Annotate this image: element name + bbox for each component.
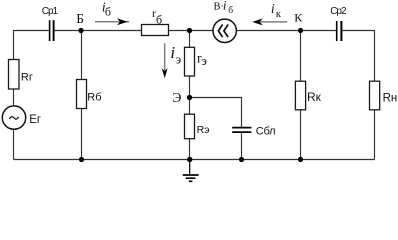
wire Cp1 to r_b through node B — [54, 30, 141, 32]
svg-text:э: э — [176, 53, 181, 67]
resistor r_b — [142, 25, 169, 36]
svg-text:б: б — [105, 5, 111, 19]
wire Rg to Eg — [13, 89, 15, 106]
wire Rb to bottom bus — [81, 109, 83, 160]
current arrow i_k — [252, 18, 287, 25]
svg-text:Rн: Rн — [383, 93, 398, 105]
svg-text:i: i — [223, 0, 227, 12]
current arrow i_b — [95, 18, 129, 25]
svg-text:э: э — [201, 53, 207, 68]
svg-text:Ег: Ег — [29, 114, 41, 126]
svg-text:к: к — [276, 9, 282, 20]
junction dot Rb bottom — [79, 157, 84, 162]
svg-text:Ср1: Ср1 — [42, 6, 59, 17]
wire node E to Cbl branch — [190, 98, 242, 128]
resistor Rb — [77, 80, 87, 109]
controlled current source U1 B*i_b — [213, 19, 236, 42]
resistor Rk — [295, 81, 305, 110]
ground — [183, 160, 199, 182]
svg-text:Rэ: Rэ — [197, 124, 210, 136]
wire r_b to source U1 — [169, 30, 213, 32]
resistor r_e — [185, 47, 195, 76]
wire Re to bottom bus — [189, 139, 191, 160]
node B junction dot — [78, 28, 83, 33]
svg-text:Rг: Rг — [21, 71, 33, 83]
wire source U1 to Cp2 through node K — [236, 30, 336, 32]
svg-text:Сбл: Сбл — [256, 126, 276, 138]
wire Eg to bottom bus — [13, 129, 15, 159]
svg-text:б: б — [156, 13, 162, 27]
svg-text:Rк: Rк — [307, 90, 322, 104]
wire right column upper — [374, 30, 376, 81]
svg-text:Б: Б — [76, 11, 84, 26]
junction dot Rk bottom — [298, 157, 303, 162]
wire node to r_e — [189, 31, 191, 48]
wire top-left horizontal — [14, 30, 49, 32]
wire bottom bus — [14, 159, 375, 161]
wire Cp2 to top-right corner — [342, 30, 374, 32]
resistor Re — [185, 114, 195, 139]
svg-text:К: К — [294, 11, 303, 25]
node junction dot r_b/r_e — [187, 28, 192, 33]
wire Rk to bottom bus — [300, 110, 302, 160]
junction dot Cbl bottom — [239, 157, 244, 162]
wire left column upper — [13, 30, 15, 60]
svg-text:i: i — [271, 1, 275, 16]
svg-text:Rб: Rб — [87, 92, 101, 104]
svg-text:б: б — [228, 5, 233, 16]
wire Cbl to bottom bus — [241, 133, 243, 160]
capacitor Cp2 — [337, 21, 342, 41]
node K junction dot — [298, 28, 303, 33]
wire r_e to node E and Re — [189, 76, 191, 114]
svg-text:i: i — [170, 43, 175, 62]
junction dot ground — [187, 157, 192, 162]
capacitor Cp1 — [50, 20, 54, 41]
resistor Rg — [9, 60, 20, 90]
svg-text:Ср2: Ср2 — [330, 6, 347, 17]
source Eg — [2, 106, 25, 129]
svg-text:Э: Э — [172, 91, 181, 106]
resistor Rn — [370, 81, 380, 110]
capacitor Cbl — [232, 128, 251, 133]
wire node K down to Rk — [300, 31, 302, 82]
wire Rn to bottom bus — [374, 110, 376, 160]
wire node B down to Rb — [81, 31, 83, 80]
current arrow i_e — [162, 43, 168, 78]
node E junction dot — [187, 95, 192, 100]
